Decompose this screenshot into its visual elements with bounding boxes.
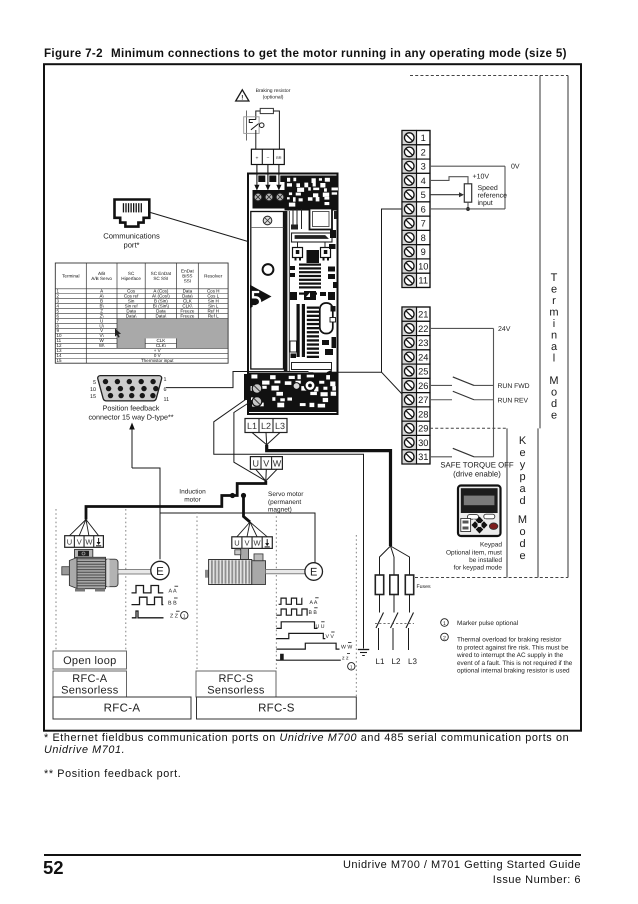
svg-text:Communications: Communications bbox=[103, 232, 160, 241]
svg-text:for keypad mode: for keypad mode bbox=[454, 565, 503, 572]
svg-text:A/B Servo: A/B Servo bbox=[91, 276, 112, 281]
svg-text:8: 8 bbox=[421, 233, 426, 243]
svg-text:U U: U U bbox=[316, 624, 325, 630]
svg-text:1: 1 bbox=[164, 377, 167, 383]
svg-text:W\: W\ bbox=[99, 343, 105, 348]
svg-text:Sensorless: Sensorless bbox=[207, 685, 265, 697]
svg-text:Marker pulse optional: Marker pulse optional bbox=[457, 620, 518, 627]
svg-text:a: a bbox=[519, 483, 526, 495]
svg-text:A A: A A bbox=[169, 589, 177, 595]
svg-text:21: 21 bbox=[418, 310, 428, 320]
svg-text:RFC-A: RFC-A bbox=[104, 703, 141, 715]
svg-text:L2: L2 bbox=[261, 421, 271, 431]
svg-text:p: p bbox=[519, 471, 525, 483]
svg-text:m: m bbox=[549, 307, 558, 319]
svg-text:input: input bbox=[478, 199, 493, 207]
svg-text:11: 11 bbox=[164, 397, 170, 403]
svg-text:RUN FWD: RUN FWD bbox=[498, 383, 530, 390]
svg-text:1: 1 bbox=[183, 613, 186, 618]
svg-text:port*: port* bbox=[123, 241, 139, 250]
svg-text:23: 23 bbox=[418, 338, 428, 348]
svg-text:Optional item, must: Optional item, must bbox=[446, 550, 502, 557]
svg-text:optional internal braking resi: optional internal braking resistor is us… bbox=[457, 668, 570, 675]
svg-text:Data\: Data\ bbox=[126, 313, 138, 318]
svg-text:z z: z z bbox=[342, 656, 349, 662]
svg-text:Thermal overload for braking r: Thermal overload for braking resistor bbox=[457, 637, 562, 644]
svg-text:L1: L1 bbox=[376, 657, 385, 666]
svg-text:(optional): (optional) bbox=[263, 94, 284, 100]
svg-text:M: M bbox=[549, 375, 558, 387]
svg-text:2: 2 bbox=[421, 147, 426, 157]
svg-text:1: 1 bbox=[350, 664, 353, 669]
svg-text:1: 1 bbox=[443, 621, 446, 627]
svg-text:e: e bbox=[519, 550, 525, 562]
svg-text:Terminal: Terminal bbox=[62, 274, 79, 279]
svg-text:L3: L3 bbox=[275, 421, 285, 431]
svg-text:d: d bbox=[551, 398, 557, 410]
svg-text:Keypad: Keypad bbox=[480, 542, 502, 549]
svg-text:motor: motor bbox=[184, 497, 201, 504]
svg-text:5: 5 bbox=[93, 380, 96, 386]
svg-text:e: e bbox=[551, 284, 557, 296]
svg-text:7: 7 bbox=[421, 219, 426, 229]
svg-text:Open loop: Open loop bbox=[63, 655, 116, 667]
svg-text:0V: 0V bbox=[511, 164, 520, 171]
svg-text:event of a fault. This is not: event of a fault. This is not required i… bbox=[457, 660, 573, 667]
svg-text:Fuses: Fuses bbox=[417, 584, 432, 590]
svg-text:E: E bbox=[156, 566, 164, 578]
svg-text:24V: 24V bbox=[498, 326, 511, 333]
svg-text:y: y bbox=[520, 459, 526, 471]
svg-text:l: l bbox=[553, 353, 555, 365]
svg-text:(drive enable): (drive enable) bbox=[453, 470, 501, 479]
svg-text:10: 10 bbox=[90, 387, 96, 393]
svg-text:V: V bbox=[263, 459, 269, 469]
svg-text:Thermistor input: Thermistor input bbox=[141, 358, 174, 363]
svg-text:3: 3 bbox=[421, 162, 426, 172]
svg-text:magnet): magnet) bbox=[268, 507, 292, 514]
svg-text:5: 5 bbox=[421, 190, 426, 200]
svg-text:28: 28 bbox=[418, 409, 428, 419]
svg-text:M: M bbox=[518, 514, 527, 526]
svg-text:Data\: Data\ bbox=[155, 313, 167, 318]
svg-text:Hiperface: Hiperface bbox=[121, 276, 141, 281]
svg-text:Z Z: Z Z bbox=[170, 614, 179, 620]
svg-text:L1: L1 bbox=[247, 421, 257, 431]
svg-text:L2: L2 bbox=[392, 657, 401, 666]
svg-text:Ref L: Ref L bbox=[208, 313, 219, 318]
svg-text:o: o bbox=[551, 387, 557, 399]
svg-text:V V: V V bbox=[326, 634, 335, 640]
svg-text:BR: BR bbox=[276, 156, 282, 160]
svg-text:Servo motor: Servo motor bbox=[268, 491, 304, 498]
svg-text:15: 15 bbox=[57, 358, 63, 363]
svg-text:Freeze: Freeze bbox=[180, 313, 195, 318]
svg-text:connector 15 way D-type**: connector 15 way D-type** bbox=[88, 413, 173, 422]
svg-text:10: 10 bbox=[418, 261, 428, 271]
svg-text:to protect against fire risk.: to protect against fire risk. This must … bbox=[457, 644, 569, 651]
svg-text:a: a bbox=[551, 341, 558, 353]
svg-text:RUN REV: RUN REV bbox=[498, 397, 529, 404]
svg-text:+10V: +10V bbox=[473, 174, 490, 181]
svg-text:d: d bbox=[519, 538, 525, 550]
svg-text:U: U bbox=[252, 459, 259, 469]
svg-text:−: − bbox=[266, 155, 269, 161]
svg-text:Speed: Speed bbox=[478, 184, 498, 192]
svg-text:T: T bbox=[551, 272, 558, 284]
svg-text:Resolver: Resolver bbox=[204, 274, 223, 279]
svg-text:W W: W W bbox=[341, 645, 352, 651]
svg-text:be installed: be installed bbox=[469, 557, 502, 564]
svg-text:9: 9 bbox=[421, 247, 426, 257]
svg-text:11: 11 bbox=[418, 276, 428, 286]
svg-text:U: U bbox=[234, 539, 239, 548]
svg-text:4: 4 bbox=[421, 176, 426, 186]
svg-text:B B: B B bbox=[309, 610, 318, 616]
svg-text:B B: B B bbox=[168, 600, 177, 606]
svg-text:+: + bbox=[255, 155, 258, 161]
svg-text:r: r bbox=[552, 295, 556, 307]
svg-text:i: i bbox=[553, 318, 555, 330]
svg-text:d: d bbox=[519, 495, 525, 507]
svg-text:reference: reference bbox=[478, 192, 508, 200]
svg-text:Braking resistor: Braking resistor bbox=[256, 88, 291, 94]
svg-text:24: 24 bbox=[418, 352, 428, 362]
svg-text:A A: A A bbox=[310, 600, 318, 606]
svg-text:SSI: SSI bbox=[184, 279, 191, 284]
svg-text:E: E bbox=[310, 567, 317, 579]
svg-text:29: 29 bbox=[418, 424, 428, 434]
svg-text:1: 1 bbox=[421, 133, 426, 143]
svg-text:e: e bbox=[519, 447, 525, 459]
svg-text:V: V bbox=[77, 538, 82, 547]
svg-text:26: 26 bbox=[418, 381, 428, 391]
svg-text:e: e bbox=[551, 410, 557, 422]
svg-text:15: 15 bbox=[90, 394, 96, 400]
svg-text:K: K bbox=[519, 435, 527, 447]
svg-text:U: U bbox=[67, 538, 72, 547]
svg-text:22: 22 bbox=[418, 324, 428, 334]
svg-text:Induction: Induction bbox=[179, 489, 206, 496]
svg-text:W: W bbox=[85, 538, 93, 547]
svg-text:SC SSI: SC SSI bbox=[153, 276, 168, 281]
svg-text:n: n bbox=[551, 330, 557, 342]
svg-text:25: 25 bbox=[418, 367, 428, 377]
svg-text:W: W bbox=[273, 459, 282, 469]
svg-text:Sensorless: Sensorless bbox=[61, 685, 119, 697]
svg-text:6: 6 bbox=[421, 204, 426, 214]
svg-text:o: o bbox=[519, 526, 525, 538]
svg-text:Position feedback: Position feedback bbox=[103, 404, 160, 413]
svg-text:wired to interrupt the AC supp: wired to interrupt the AC supply in the bbox=[456, 652, 564, 659]
svg-text:2: 2 bbox=[443, 636, 446, 642]
svg-text:L3: L3 bbox=[408, 657, 417, 666]
svg-text:!: ! bbox=[241, 94, 243, 101]
svg-text:V: V bbox=[244, 539, 249, 548]
svg-text:W: W bbox=[254, 539, 262, 548]
svg-text:RFC-S: RFC-S bbox=[218, 673, 253, 685]
svg-text:27: 27 bbox=[418, 395, 428, 405]
svg-text:(permanent: (permanent bbox=[268, 499, 301, 506]
svg-text:RFC-A: RFC-A bbox=[72, 673, 107, 685]
svg-text:30: 30 bbox=[418, 438, 428, 448]
svg-text:SAFE TORQUE OFF: SAFE TORQUE OFF bbox=[440, 461, 514, 470]
svg-text:31: 31 bbox=[418, 452, 428, 462]
svg-text:RFC-S: RFC-S bbox=[258, 703, 295, 715]
